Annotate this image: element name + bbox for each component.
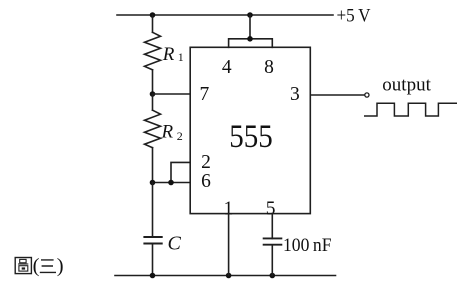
svg-text:2: 2	[201, 152, 211, 173]
svg-text:7: 7	[200, 84, 210, 105]
node junction Vcc branch/top rail	[247, 12, 253, 18]
svg-text:3: 3	[290, 84, 300, 105]
wire pin 7	[153, 93, 191, 95]
output square waveform	[364, 103, 457, 116]
node junction pin1/bottom rail	[226, 273, 232, 279]
svg-text:+5 V: +5 V	[337, 6, 371, 27]
pin 3 label	[290, 84, 300, 105]
wire pin 6	[153, 182, 191, 184]
svg-text:): )	[57, 255, 64, 277]
svg-text:C: C	[168, 232, 182, 254]
output terminal	[365, 93, 369, 97]
node junction C/bottom rail	[150, 273, 156, 279]
label 555	[229, 119, 273, 155]
pin 6 label	[201, 171, 211, 192]
node junction R1/R2/pin7	[150, 91, 156, 97]
wire capacitor C top lead	[152, 183, 154, 238]
svg-text:R: R	[161, 122, 174, 143]
wire R1 top lead	[152, 15, 154, 32]
wire +5V top rail	[117, 14, 333, 16]
wire pin 1 to ground	[228, 214, 230, 276]
figure caption close paren	[57, 255, 64, 277]
wire pin 5 lead	[271, 214, 273, 239]
svg-text:6: 6	[201, 171, 211, 192]
figure caption glyph 三	[40, 260, 56, 273]
capacitor C	[143, 237, 162, 244]
wire R2 top lead	[152, 94, 154, 110]
pin 5 label	[266, 199, 276, 220]
svg-text:1: 1	[178, 50, 184, 64]
node junction R2/C/pin6	[150, 180, 156, 186]
resistor R1	[145, 32, 161, 70]
svg-text:100 nF: 100 nF	[283, 235, 332, 256]
node junction pin2/pin6	[168, 180, 174, 186]
capacitor C2 100nF	[263, 238, 283, 244]
wire R2 bottom lead	[152, 148, 154, 183]
label 100 nF value	[283, 235, 332, 256]
resistor R2	[145, 110, 161, 148]
svg-text:2: 2	[177, 129, 183, 143]
figure caption open paren	[33, 255, 40, 277]
+5 V supply label	[337, 6, 371, 27]
label output	[382, 74, 431, 95]
wire ground bottom rail	[115, 275, 336, 277]
svg-text:5: 5	[266, 199, 276, 220]
label C	[168, 232, 182, 254]
wire capacitor C2 bottom lead	[271, 245, 273, 276]
svg-text:8: 8	[264, 57, 274, 78]
wire pin 2 stub	[171, 162, 190, 182]
svg-text:output: output	[382, 74, 431, 95]
op-amp U1 555 timer body	[190, 47, 310, 213]
pin 1 label	[224, 199, 234, 220]
wire capacitor C bottom lead	[152, 244, 154, 276]
pin 7 label	[200, 84, 210, 105]
svg-text:555: 555	[229, 119, 273, 155]
wire R1 bottom lead	[152, 70, 154, 94]
svg-text:R: R	[162, 44, 175, 65]
svg-text:4: 4	[222, 57, 232, 78]
label R1	[162, 44, 184, 65]
pin 8 label	[264, 57, 274, 78]
wire pin 3 output	[310, 94, 364, 96]
figure caption glyph 圖	[15, 258, 31, 274]
pin 2 label	[201, 152, 211, 173]
pin 4 label	[222, 57, 232, 78]
label R2	[161, 122, 183, 144]
wire pin4-pin8 bridge to Vcc	[229, 15, 273, 47]
node junction 100nF/bottom rail	[270, 273, 276, 279]
svg-text:(: (	[33, 255, 40, 277]
node junction bridge/Vcc	[247, 36, 253, 42]
node junction R1/top rail	[150, 12, 156, 18]
